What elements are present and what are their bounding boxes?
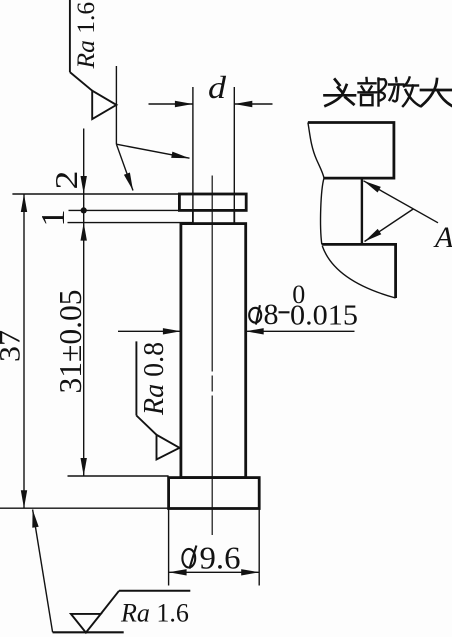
svg-text:1: 1 bbox=[35, 210, 72, 227]
svg-text:9.6: 9.6 bbox=[200, 540, 241, 576]
svg-text:Ra 1.6: Ra 1.6 bbox=[120, 599, 189, 628]
svg-text:37: 37 bbox=[0, 330, 27, 362]
svg-text:A: A bbox=[433, 221, 452, 254]
svg-text:Ra 0.8: Ra 0.8 bbox=[139, 342, 170, 416]
svg-text:2: 2 bbox=[48, 171, 84, 190]
svg-text:0: 0 bbox=[292, 280, 305, 309]
svg-text:8: 8 bbox=[264, 298, 279, 331]
svg-text:Ra 1.6: Ra 1.6 bbox=[71, 2, 100, 70]
svg-text:31±0.05: 31±0.05 bbox=[52, 290, 88, 394]
svg-text:d: d bbox=[208, 69, 227, 105]
